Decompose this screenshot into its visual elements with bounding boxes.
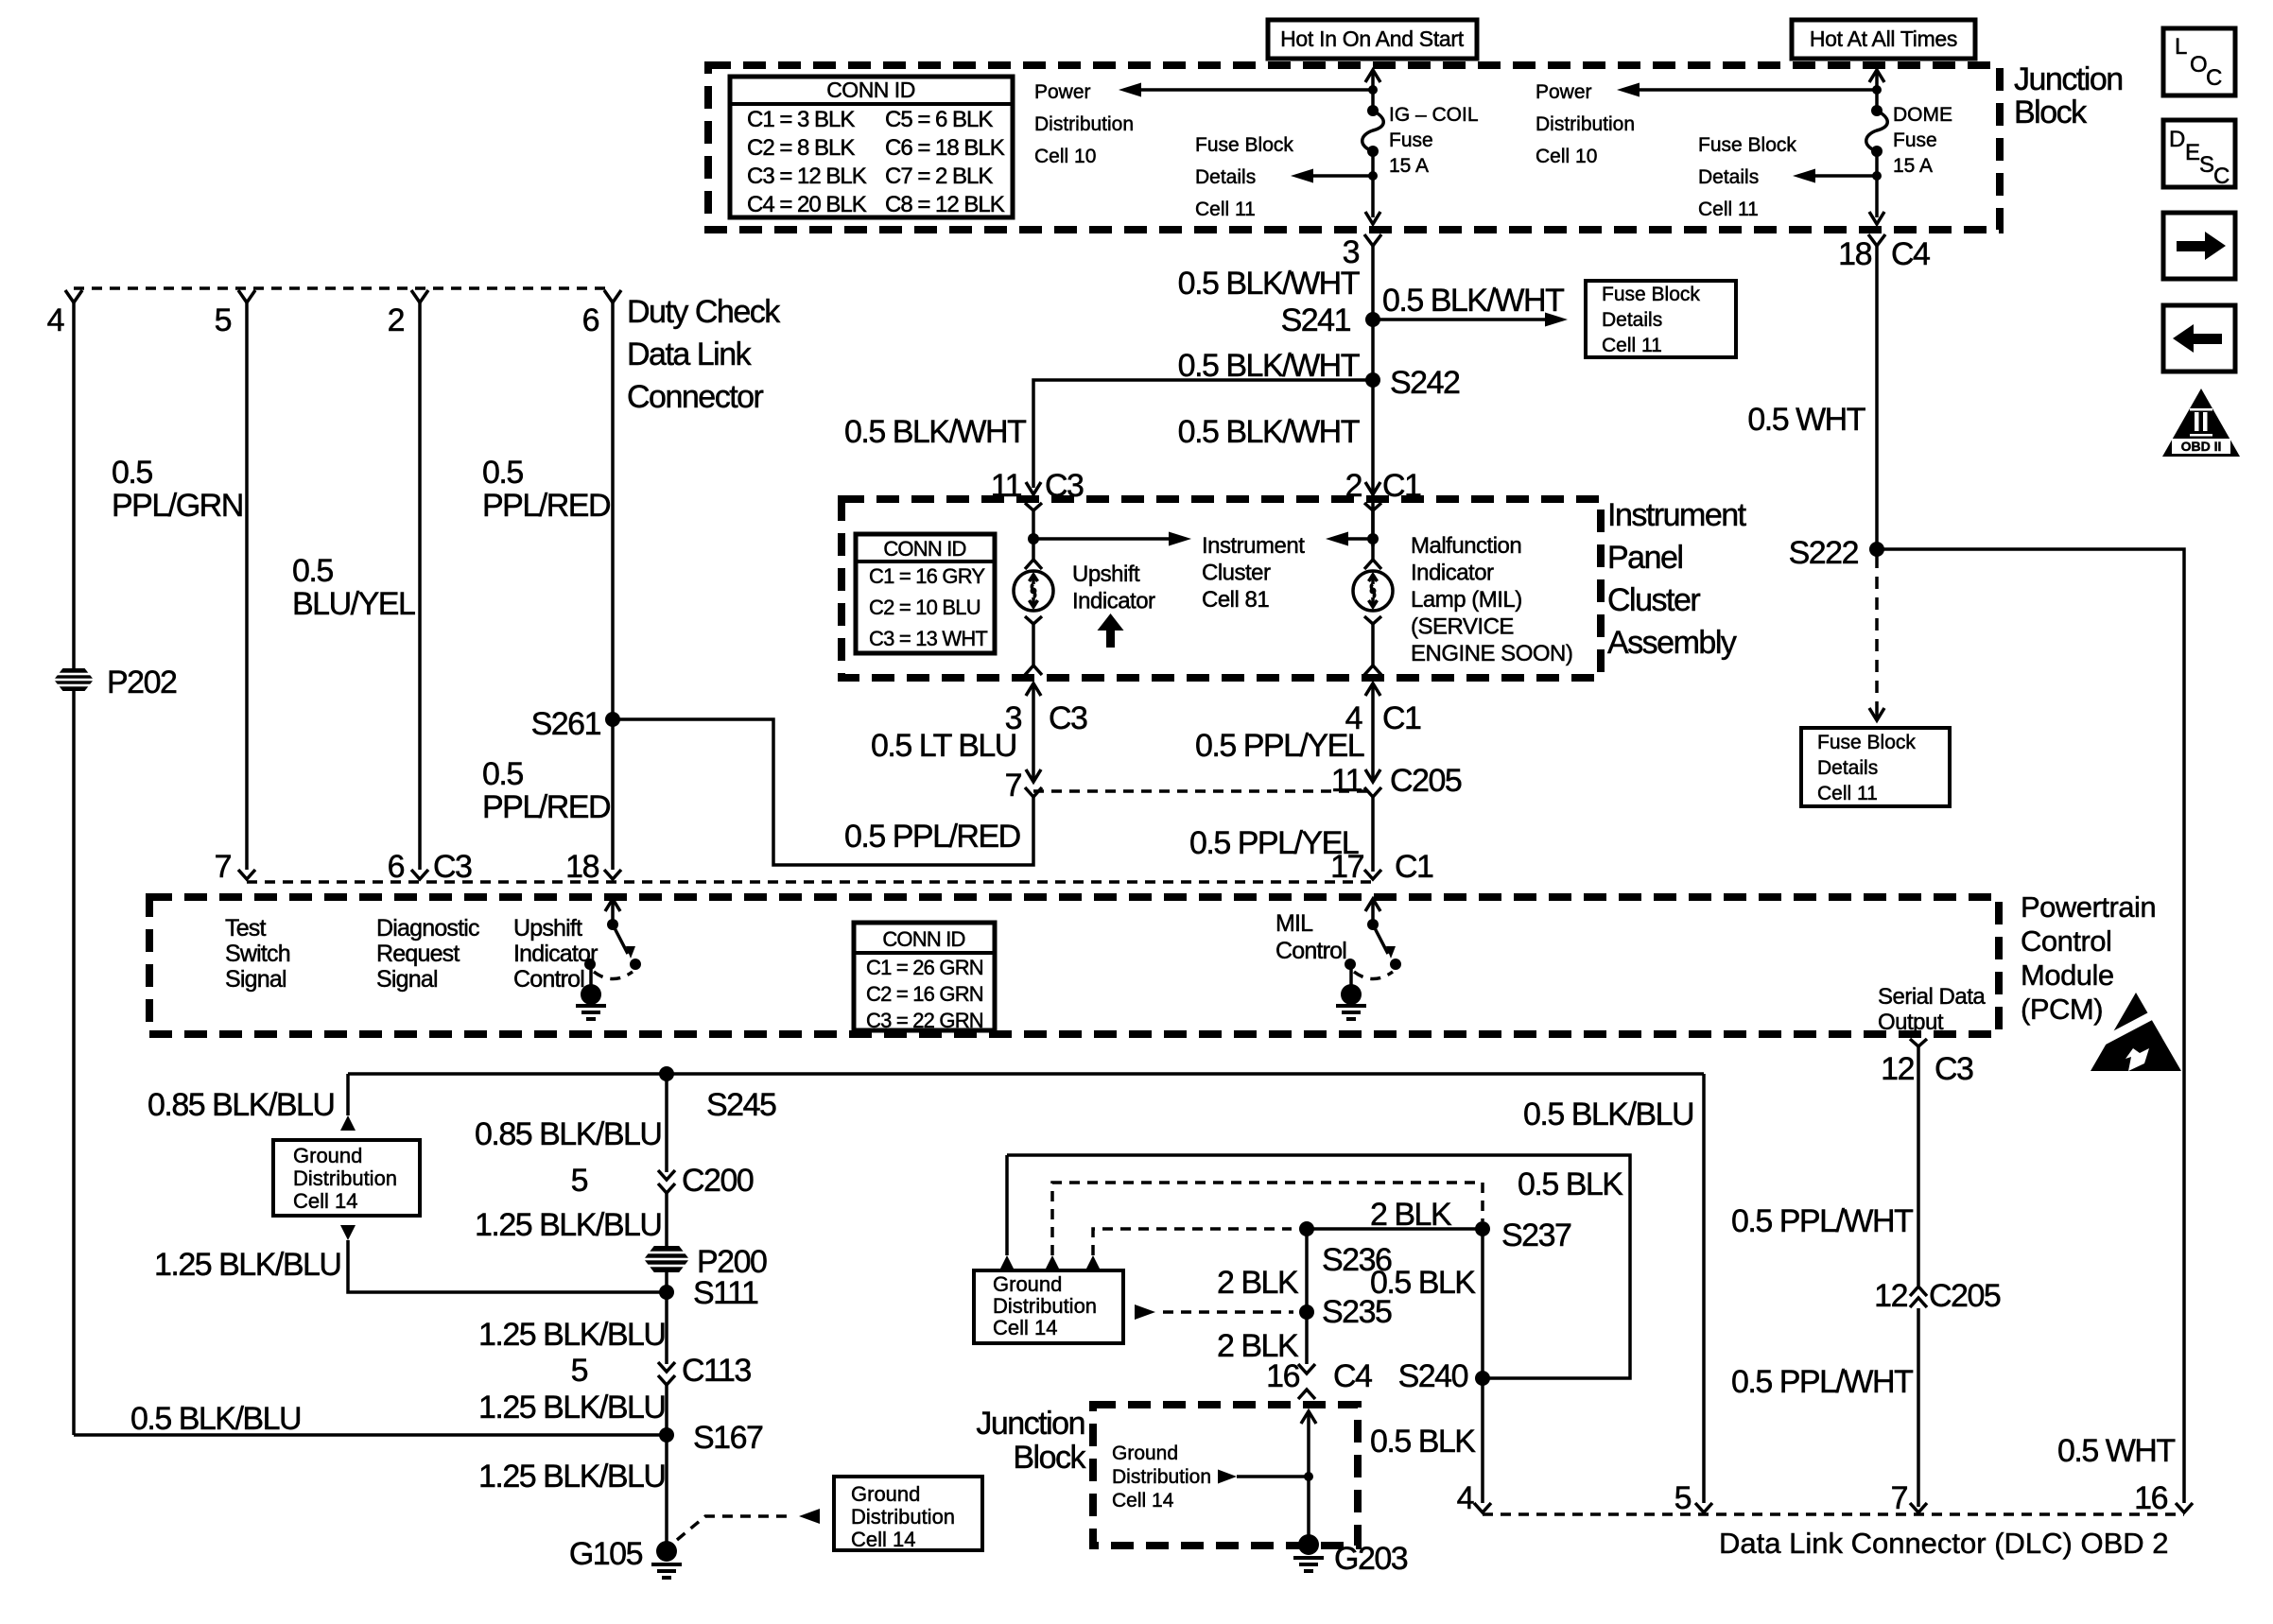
svg-text:Data Link Connector (DLC) OBD: Data Link Connector (DLC) OBD 2 <box>1719 1527 2169 1560</box>
splice S241 <box>1365 312 1380 327</box>
svg-text:16: 16 <box>2134 1480 2167 1516</box>
svg-text:5: 5 <box>1674 1480 1692 1516</box>
svg-text:Control: Control <box>1275 938 1346 964</box>
svg-text:S241: S241 <box>1281 302 1351 338</box>
box Hot In On And Start <box>1268 20 1477 59</box>
splice S245 <box>659 1066 674 1081</box>
svg-text:Ground: Ground <box>1112 1443 1178 1464</box>
svg-text:Serial Data: Serial Data <box>1878 984 1986 1010</box>
svg-text:CONN ID: CONN ID <box>883 537 965 561</box>
svg-text:C2 = 10 BLU: C2 = 10 BLU <box>869 596 980 619</box>
svg-text:C: C <box>2213 164 2230 189</box>
svg-text:Distribution: Distribution <box>1034 113 1134 135</box>
svg-text:1.25 BLK/BLU: 1.25 BLK/BLU <box>154 1247 340 1283</box>
svg-text:18: 18 <box>1838 236 1871 272</box>
svg-text:Test: Test <box>225 915 267 942</box>
connector DLC face (dashed) <box>1483 1512 2184 1516</box>
lamp Upshift Indicator <box>1025 560 1042 569</box>
wire DOME feed vertical <box>1869 70 1884 82</box>
svg-text:18: 18 <box>565 849 599 885</box>
upshift indicator lamp branch <box>1025 503 1042 510</box>
svg-text:C4: C4 <box>1891 236 1930 272</box>
svg-text:Cluster: Cluster <box>1202 561 1271 586</box>
wire G203 riser <box>1301 1411 1316 1424</box>
wire to Power Distribution Cell 10 (DOME) <box>1638 88 1877 92</box>
svg-text:Indicator: Indicator <box>1411 561 1494 586</box>
wire serial data PCM to C205 <box>1917 1051 1920 1507</box>
svg-text:Indicator: Indicator <box>1072 589 1155 614</box>
svg-text:Cluster: Cluster <box>1607 582 1700 618</box>
svg-text:Powertrain: Powertrain <box>2021 890 2156 924</box>
wire 18 C4 to S222 (0.5 WHT) <box>1875 246 1879 549</box>
box Ground Distribution Cell 14 (bottom left) <box>834 1477 982 1550</box>
svg-text:0.5 PPL/WHT: 0.5 PPL/WHT <box>1731 1203 1913 1239</box>
wire to Fuse Block Details Cell 11 (IG) <box>1311 174 1373 178</box>
svg-text:Duty Check: Duty Check <box>627 294 781 330</box>
svg-text:CONN ID: CONN ID <box>826 78 915 102</box>
svg-text:PPL/GRN: PPL/GRN <box>112 488 243 524</box>
svg-text:S237: S237 <box>1501 1218 1571 1253</box>
box Ground Distribution Cell 14 (center) <box>974 1270 1123 1343</box>
svg-text:Cell 11: Cell 11 <box>1602 335 1662 356</box>
svg-text:Data Link: Data Link <box>627 337 753 372</box>
svg-text:G105: G105 <box>569 1536 643 1572</box>
wire pin4 vertical (0.5 PPL/GRN) <box>72 302 76 1435</box>
svg-text:Hot In On And Start: Hot In On And Start <box>1280 26 1465 51</box>
splice S261 <box>605 712 620 727</box>
svg-text:C8 = 12 BLK: C8 = 12 BLK <box>885 192 1005 217</box>
svg-text:Cell 10: Cell 10 <box>1536 146 1597 167</box>
splice P200 grommet <box>644 1246 689 1272</box>
svg-text:Power: Power <box>1536 81 1592 103</box>
node cluster feed tap (upshift) <box>1028 533 1039 544</box>
wire C113 to S167 <box>665 1385 668 1435</box>
svg-text:Instrument: Instrument <box>1202 533 1305 559</box>
svg-text:P202: P202 <box>107 665 177 700</box>
junction block J1 dashed outline <box>708 65 2000 230</box>
svg-text:O: O <box>2190 52 2208 78</box>
svg-text:5: 5 <box>571 1353 588 1389</box>
svg-text:Output: Output <box>1878 1010 1944 1035</box>
svg-text:PPL/RED: PPL/RED <box>482 789 610 825</box>
node power distribution tap (DOME) <box>1872 85 1882 95</box>
svg-text:0.5: 0.5 <box>292 553 333 589</box>
svg-text:Assembly: Assembly <box>1607 625 1737 661</box>
node fuse block details tap (IG) <box>1368 171 1378 181</box>
svg-text:0.5 BLK/WHT: 0.5 BLK/WHT <box>844 414 1026 450</box>
svg-text:BLU/YEL: BLU/YEL <box>292 586 415 622</box>
wire pin2-pin6 vertical <box>418 302 422 870</box>
svg-text:L: L <box>2175 34 2187 60</box>
svg-text:C3: C3 <box>433 849 472 885</box>
svg-text:Distribution: Distribution <box>1112 1466 1211 1488</box>
lamp Malfunction Indicator Lamp <box>1364 560 1381 569</box>
svg-text:C1 = 26 GRN: C1 = 26 GRN <box>866 956 983 979</box>
svg-text:C2 = 8 BLK: C2 = 8 BLK <box>747 135 855 161</box>
splice S237 <box>1475 1221 1490 1236</box>
svg-text:C2 = 16 GRN: C2 = 16 GRN <box>866 982 983 1006</box>
ground G105 <box>656 1541 677 1562</box>
svg-text:7: 7 <box>1005 768 1022 803</box>
connector C3 bottom bracket (dashed) <box>247 880 1373 884</box>
svg-text:Upshift: Upshift <box>1072 561 1140 587</box>
svg-text:S167: S167 <box>693 1420 763 1456</box>
svg-text:0.5 WHT: 0.5 WHT <box>2057 1433 2175 1469</box>
svg-text:Cell 11: Cell 11 <box>1698 199 1759 220</box>
svg-text:Switch: Switch <box>225 941 290 967</box>
svg-text:Cell 14: Cell 14 <box>851 1528 915 1551</box>
svg-text:Connector: Connector <box>627 379 764 415</box>
svg-text:6: 6 <box>582 302 599 338</box>
icon LOC box <box>2163 28 2235 95</box>
wire C200 to P200 <box>665 1193 668 1248</box>
svg-text:1.25 BLK/BLU: 1.25 BLK/BLU <box>478 1390 665 1425</box>
svg-text:0.5: 0.5 <box>112 455 152 491</box>
svg-text:2 BLK: 2 BLK <box>1217 1265 1299 1301</box>
svg-text:DOME: DOME <box>1893 104 1952 126</box>
svg-text:C1 = 3 BLK: C1 = 3 BLK <box>747 107 855 132</box>
svg-text:C6 = 18 BLK: C6 = 18 BLK <box>885 135 1005 161</box>
svg-text:C1: C1 <box>1382 700 1421 736</box>
svg-text:Request: Request <box>376 941 460 967</box>
svg-text:Block: Block <box>2014 95 2088 130</box>
wire S222 to DLC pin 16 <box>1877 549 2184 1503</box>
svg-text:2: 2 <box>388 302 405 338</box>
wire S222 dashed drop to fuse details <box>1875 556 1879 709</box>
wire IG fuse output <box>1371 151 1375 217</box>
connector C205 dashed tie <box>1033 789 1373 793</box>
svg-text:Cell 11: Cell 11 <box>1817 783 1878 804</box>
icon upshift arrow (solid) <box>1106 629 1115 648</box>
wire S167 to G105 <box>665 1435 668 1542</box>
svg-text:4: 4 <box>1457 1480 1474 1516</box>
svg-text:Fuse: Fuse <box>1389 130 1433 151</box>
svg-text:Fuse Block: Fuse Block <box>1195 134 1293 156</box>
box Fuse Block Details Cell 11 (S241) <box>1586 281 1736 357</box>
wire 0.5 BLK ground loop (solid) <box>1007 1155 1630 1378</box>
wire 0.5 BLK/BLU long run to S167 <box>74 1433 667 1437</box>
junction block J2 dashed outline <box>1093 1405 1358 1546</box>
ground G203 <box>1298 1534 1319 1555</box>
svg-text:C: C <box>2206 65 2222 91</box>
svg-text:0.5 BLK/BLU: 0.5 BLK/BLU <box>130 1401 301 1437</box>
switch MIL control driver <box>1365 899 1380 911</box>
wire S241 to fuse block details box <box>1373 318 1547 321</box>
splice S111 <box>659 1285 674 1300</box>
arrow into ground distribution (3) <box>1085 1255 1101 1270</box>
svg-text:S240: S240 <box>1398 1358 1468 1394</box>
svg-text:0.85 BLK/BLU: 0.85 BLK/BLU <box>475 1116 661 1152</box>
svg-text:Details: Details <box>1817 757 1878 779</box>
svg-text:11: 11 <box>1331 763 1362 799</box>
svg-text:0.5 PPL/YEL: 0.5 PPL/YEL <box>1189 825 1359 861</box>
wire P200 to S111 <box>665 1272 668 1292</box>
arrow ground distribution tap (J2) <box>1218 1470 1237 1484</box>
svg-text:C3 = 13 WHT: C3 = 13 WHT <box>869 627 987 650</box>
svg-text:Cell 11: Cell 11 <box>1195 199 1256 220</box>
dashed ground net to S237 <box>1052 1183 1483 1255</box>
wire to Power Distribution Cell 10 (left arrow) <box>1139 88 1373 92</box>
svg-text:12: 12 <box>1874 1278 1907 1314</box>
svg-text:S245: S245 <box>706 1087 776 1123</box>
splice S167 <box>659 1427 674 1443</box>
arrow from ground distribution box down <box>340 1225 356 1240</box>
connector table CONN ID (PCM) <box>854 923 995 1030</box>
wire S245 horizontal run <box>348 1072 1704 1076</box>
svg-text:0.5 LT BLU: 0.5 LT BLU <box>871 728 1016 764</box>
svg-text:0.5 BLK/WHT: 0.5 BLK/WHT <box>1178 266 1360 302</box>
svg-text:Hot At All Times: Hot At All Times <box>1810 26 1957 51</box>
wire 0.5 BLK/BLU down to DLC pin 5 <box>1702 1074 1706 1503</box>
wire IG-COIL feed vertical <box>1365 70 1380 82</box>
wire S236 down to 16 C4 <box>1305 1229 1309 1364</box>
svg-text:0.5 WHT: 0.5 WHT <box>1747 402 1865 438</box>
wire S240 down to DLC pin 4 (0.5 BLK) <box>1481 1378 1484 1503</box>
box Fuse Block Details Cell 11 (S222) <box>1801 728 1950 806</box>
svg-text:Distribution: Distribution <box>293 1166 397 1190</box>
icon back arrow box <box>2163 305 2235 371</box>
svg-text:Module: Module <box>2021 959 2114 992</box>
wire S242 branch to cluster pin 11 C3 <box>1033 380 1373 488</box>
wire S236 to S237 (2 BLK) <box>1307 1227 1483 1231</box>
svg-text:Control: Control <box>513 966 584 993</box>
svg-text:Cell 10: Cell 10 <box>1034 146 1096 167</box>
svg-text:1.25 BLK/BLU: 1.25 BLK/BLU <box>478 1317 665 1353</box>
svg-text:C1: C1 <box>1395 849 1433 885</box>
svg-text:Control: Control <box>2021 924 2111 958</box>
wire pin6-pin18 vertical <box>611 302 615 870</box>
instrument panel cluster dashed box <box>842 499 1601 678</box>
wire 11 C205 to pin 17 C1 <box>1371 797 1375 872</box>
svg-text:S235: S235 <box>1322 1294 1392 1330</box>
svg-text:Junction: Junction <box>2014 61 2123 97</box>
svg-text:C3 = 22 GRN: C3 = 22 GRN <box>866 1009 983 1032</box>
svg-text:Diagnostic: Diagnostic <box>376 915 479 942</box>
icon OBD II triangle <box>2162 389 2240 457</box>
node power distribution tap (IG) <box>1368 85 1378 95</box>
svg-text:C4: C4 <box>1333 1358 1372 1394</box>
connector table CONN ID (cluster) <box>856 534 995 653</box>
connector table CONN ID (junction block) <box>730 77 1013 217</box>
svg-text:1.25 BLK/BLU: 1.25 BLK/BLU <box>475 1207 661 1243</box>
wire branch to ground distribution (0.85 BLK/BLU) <box>346 1074 350 1115</box>
svg-text:Ground: Ground <box>851 1482 920 1506</box>
icon ESD sensitive symbol <box>2091 993 2181 1071</box>
svg-text:7: 7 <box>215 849 232 885</box>
svg-text:IG – COIL: IG – COIL <box>1389 104 1479 126</box>
svg-text:15 A: 15 A <box>1893 155 1933 177</box>
splice P202 grommet <box>54 668 94 691</box>
svg-text:15 A: 15 A <box>1389 155 1429 177</box>
svg-text:C3: C3 <box>1049 700 1087 736</box>
svg-text:G203: G203 <box>1334 1541 1408 1577</box>
wire arrow to Instrument Cluster text (MIL) <box>1346 537 1373 541</box>
wire junction block pin3 to S241/S242 <box>1371 246 1375 546</box>
pin 12 C3 (PCM serial data) <box>1910 1039 1927 1046</box>
wire to Fuse Block Details Cell 11 (DOME) <box>1813 174 1877 178</box>
svg-text:Ground: Ground <box>293 1144 362 1167</box>
wire DOME fuse output <box>1875 151 1879 217</box>
svg-text:0.5: 0.5 <box>482 455 523 491</box>
svg-text:C205: C205 <box>1390 763 1462 799</box>
svg-text:Cell 81: Cell 81 <box>1202 587 1269 613</box>
icon forward arrow box <box>2163 213 2235 279</box>
splice S240 <box>1475 1371 1490 1386</box>
svg-text:4: 4 <box>47 302 64 338</box>
svg-text:Distribution: Distribution <box>1536 113 1635 135</box>
svg-text:OBD II: OBD II <box>2181 439 2222 454</box>
arrow ground distribution to S235 (dashed) <box>1135 1304 1155 1320</box>
splice S242 <box>1365 372 1380 388</box>
svg-text:Distribution: Distribution <box>993 1294 1097 1318</box>
svg-text:Details: Details <box>1698 166 1759 188</box>
node fuse block details tap (DOME) <box>1872 171 1882 181</box>
svg-text:1.25 BLK/BLU: 1.25 BLK/BLU <box>478 1459 665 1494</box>
pin 4 C1 cluster bottom <box>1371 683 1375 782</box>
node ground distribution tap node <box>1304 1472 1313 1481</box>
svg-text:(PCM): (PCM) <box>2021 993 2103 1026</box>
svg-text:CONN ID: CONN ID <box>882 927 964 951</box>
pin 3 C3 cluster bottom <box>1032 683 1035 782</box>
svg-text:C5 = 6 BLK: C5 = 6 BLK <box>885 107 993 132</box>
svg-text:D: D <box>2169 127 2185 152</box>
svg-text:Details: Details <box>1602 309 1662 331</box>
splice S222 <box>1869 542 1884 557</box>
svg-text:5: 5 <box>571 1163 588 1199</box>
svg-text:ENGINE SOON): ENGINE SOON) <box>1411 641 1572 666</box>
svg-text:(SERVICE: (SERVICE <box>1411 614 1514 640</box>
svg-text:Cell 14: Cell 14 <box>293 1189 357 1213</box>
connector Duty Check top bracket (dashed) <box>74 286 613 290</box>
svg-text:Cell 14: Cell 14 <box>1112 1490 1174 1512</box>
svg-text:0.5 PPL/WHT: 0.5 PPL/WHT <box>1731 1364 1913 1400</box>
svg-text:Upshift: Upshift <box>513 915 582 942</box>
svg-text:5: 5 <box>215 302 232 338</box>
svg-text:0.5 PPL/RED: 0.5 PPL/RED <box>844 819 1020 855</box>
svg-text:16: 16 <box>1266 1358 1299 1394</box>
svg-text:Power: Power <box>1034 81 1091 103</box>
svg-text:S261: S261 <box>531 706 601 742</box>
svg-text:S: S <box>2199 152 2214 178</box>
svg-text:Panel: Panel <box>1607 540 1682 576</box>
svg-text:Distribution: Distribution <box>851 1505 955 1529</box>
switch upshift indicator control driver <box>605 899 620 911</box>
fuse DOME 15A <box>1871 105 1883 116</box>
chevron above junction block (16 C4 mate) <box>1298 1390 1315 1399</box>
splice S236 <box>1299 1221 1314 1236</box>
svg-text:C3: C3 <box>1935 1051 1973 1087</box>
wire S111 to C113 <box>665 1292 668 1364</box>
svg-text:C200: C200 <box>682 1163 754 1199</box>
svg-text:Block: Block <box>1013 1440 1086 1476</box>
svg-text:0.5 BLK/BLU: 0.5 BLK/BLU <box>1523 1097 1693 1132</box>
box Ground Distribution Cell 14 (upper left) <box>273 1140 420 1216</box>
svg-text:Details: Details <box>1195 166 1256 188</box>
lamp MIL branch <box>1364 503 1381 510</box>
svg-text:0.5 BLK: 0.5 BLK <box>1370 1424 1476 1460</box>
svg-text:S242: S242 <box>1390 365 1460 401</box>
svg-text:Lamp (MIL): Lamp (MIL) <box>1411 587 1522 613</box>
dashed reference G105 to ground distribution box <box>677 1516 792 1540</box>
svg-text:Junction: Junction <box>976 1406 1084 1442</box>
svg-text:Instrument: Instrument <box>1607 497 1747 533</box>
svg-text:0.5: 0.5 <box>482 756 523 792</box>
powertrain control module dashed box <box>149 897 1999 1034</box>
svg-text:E: E <box>2185 140 2200 165</box>
svg-text:Fuse Block: Fuse Block <box>1698 134 1796 156</box>
node cluster feed tap (MIL) <box>1367 533 1379 544</box>
wire S237 down to S240 <box>1481 1229 1484 1378</box>
svg-text:C3 = 12 BLK: C3 = 12 BLK <box>747 164 867 189</box>
svg-text:0.5 BLK: 0.5 BLK <box>1518 1166 1623 1202</box>
svg-text:S111: S111 <box>693 1275 758 1311</box>
svg-text:Fuse: Fuse <box>1893 130 1937 151</box>
splice S235 <box>1299 1304 1314 1320</box>
icon DESC box <box>2163 120 2235 187</box>
svg-text:Fuse Block: Fuse Block <box>1817 732 1916 753</box>
arrow into ground distribution (2) <box>1045 1255 1060 1270</box>
svg-text:PPL/RED: PPL/RED <box>482 488 610 524</box>
svg-text:Fuse Block: Fuse Block <box>1602 284 1700 305</box>
svg-text:0.5 PPL/YEL: 0.5 PPL/YEL <box>1195 728 1364 764</box>
dashed ground net to S236 <box>1093 1229 1292 1255</box>
svg-text:C113: C113 <box>682 1353 751 1389</box>
svg-text:0.5 BLK/WHT: 0.5 BLK/WHT <box>1178 414 1360 450</box>
svg-text:Signal: Signal <box>376 966 438 993</box>
svg-text:C4 = 20 BLK: C4 = 20 BLK <box>747 192 867 217</box>
wire pin5-pin7 vertical <box>245 302 249 870</box>
arrow into ground distribution (1) <box>1005 1155 1009 1255</box>
fuse IG-COIL 15A <box>1367 105 1379 116</box>
svg-text:7: 7 <box>1891 1480 1908 1516</box>
box Hot At All Times <box>1792 20 1975 59</box>
svg-text:S222: S222 <box>1789 535 1859 571</box>
svg-text:C205: C205 <box>1929 1278 2001 1314</box>
svg-text:C1 = 16 GRY: C1 = 16 GRY <box>869 564 985 588</box>
svg-text:12: 12 <box>1881 1051 1914 1087</box>
wire S245 down to C200 <box>665 1074 668 1172</box>
svg-text:Cell 14: Cell 14 <box>993 1316 1057 1339</box>
svg-text:C7 = 2 BLK: C7 = 2 BLK <box>885 164 993 189</box>
svg-text:Signal: Signal <box>225 966 286 993</box>
svg-text:6: 6 <box>388 849 405 885</box>
svg-text:Malfunction: Malfunction <box>1411 533 1521 559</box>
svg-text:0.85 BLK/BLU: 0.85 BLK/BLU <box>147 1087 334 1123</box>
wire arrow to Instrument Cluster text <box>1033 537 1171 541</box>
svg-text:MIL: MIL <box>1275 910 1313 937</box>
svg-text:Ground: Ground <box>993 1272 1062 1296</box>
wire S261 route to cluster pin 7 <box>613 719 1033 865</box>
svg-text:0.5 BLK/WHT: 0.5 BLK/WHT <box>1382 283 1564 319</box>
